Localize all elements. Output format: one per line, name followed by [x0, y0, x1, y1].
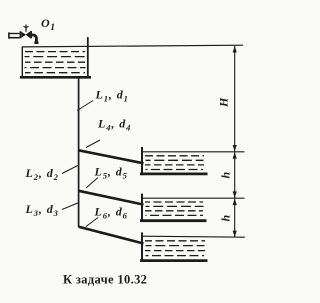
- tank right wall: [87, 37, 89, 77]
- svg-text:L1, d1: L1, d1: [95, 88, 129, 104]
- arrowhead h2 upper: [233, 199, 237, 206]
- valve flange right: [30, 31, 32, 38]
- tank left wall: [21, 47, 23, 78]
- spout tip: [34, 41, 38, 44]
- leader L6: [86, 218, 98, 227]
- valve stem: [25, 28, 27, 32]
- leader L3: [62, 203, 78, 210]
- reservoir 2 bottom: [140, 219, 207, 222]
- valve body: [21, 31, 30, 38]
- leader L2: [62, 166, 78, 174]
- reservoir 3 dashes: [145, 241, 205, 256]
- svg-text:O1: O1: [41, 16, 55, 33]
- svg-text:L4, d4: L4, d4: [97, 116, 131, 132]
- reservoir 1 dashes: [145, 156, 204, 170]
- arrowhead h1 upper: [233, 152, 237, 158]
- reservoir 2 dashes: [145, 202, 204, 215]
- svg-text:К задаче 10.32: К задаче 10.32: [63, 273, 147, 287]
- leader L1: [77, 101, 93, 111]
- tank water dashes: [25, 52, 86, 73]
- svg-text:L2, d2: L2, d2: [25, 166, 59, 182]
- arrowhead h1 lower: [233, 191, 237, 197]
- leader L5: [86, 178, 98, 189]
- svg-text:L6, d6: L6, d6: [94, 204, 128, 220]
- reservoir 3 surface line: [142, 236, 245, 237]
- arrowhead top (H upper): [233, 46, 237, 53]
- water surface / datum line: [22, 45, 243, 47]
- svg-text:L5, d5: L5, d5: [94, 164, 128, 180]
- reservoir 3 left wall: [141, 232, 143, 261]
- branch pipe L6: [79, 227, 144, 244]
- svg-text:L3, d3: L3, d3: [25, 202, 59, 218]
- supply pipe double line: [9, 33, 20, 35]
- reservoir 2 left wall: [141, 194, 143, 222]
- reservoir 2 surface line: [142, 197, 245, 199]
- leader L4: [86, 140, 100, 148]
- reservoir 3 bottom: [140, 259, 208, 262]
- tank bottom: [20, 76, 91, 79]
- valve T-handle: [22, 26, 29, 28]
- arrowhead h2 lower: [233, 231, 237, 238]
- main vertical pipe: [78, 77, 80, 227]
- spout elbow: [32, 35, 37, 42]
- svg-text:H: H: [217, 97, 231, 108]
- reservoir 1 surface line: [142, 151, 245, 153]
- branch pipe L5: [79, 191, 144, 205]
- branch pipe L4: [79, 150, 144, 163]
- arrowhead H lower: [233, 145, 237, 151]
- reservoir 1 bottom: [140, 172, 208, 175]
- svg-text:h: h: [219, 215, 233, 222]
- dimension line: [234, 46, 236, 237]
- svg-text:h: h: [219, 172, 233, 179]
- reservoir 1 left wall: [141, 147, 143, 175]
- valve flange left: [20, 31, 22, 38]
